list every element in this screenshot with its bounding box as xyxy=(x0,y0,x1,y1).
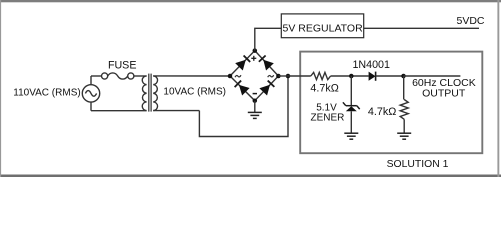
svg-text:5VDC: 5VDC xyxy=(456,15,484,27)
svg-text:OUTPUT: OUTPUT xyxy=(422,87,466,99)
svg-text:10VAC (RMS): 10VAC (RMS) xyxy=(163,87,226,98)
svg-text:110VAC (RMS): 110VAC (RMS) xyxy=(13,87,80,98)
svg-text:FUSE: FUSE xyxy=(108,59,137,71)
svg-text:4.7kΩ: 4.7kΩ xyxy=(368,106,396,118)
svg-text:4.7kΩ: 4.7kΩ xyxy=(310,82,338,94)
svg-text:5V REGULATOR: 5V REGULATOR xyxy=(283,23,364,35)
svg-text:ZENER: ZENER xyxy=(310,112,344,123)
svg-text:1N4001: 1N4001 xyxy=(352,59,389,71)
svg-text:SOLUTION 1: SOLUTION 1 xyxy=(387,159,449,170)
